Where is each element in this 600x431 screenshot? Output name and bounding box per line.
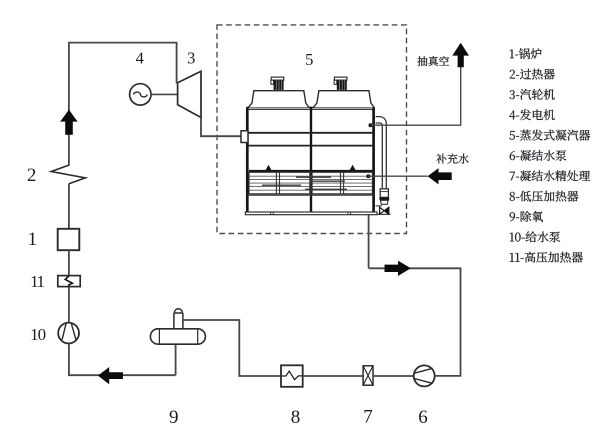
wire: heater 8 to polisher 7 — [303, 375, 363, 377]
condenser 5: internal horizontal lines — [247, 132, 374, 134]
wire: condenser basin drain — [368, 215, 370, 269]
condenser 5: makeup water inlet mark — [367, 175, 371, 179]
wire: pump 10 down and bottom-left run to deaerator drain — [69, 343, 176, 375]
condenser 5: fan motor left — [271, 80, 274, 84]
legend line 7-凝结水精处理 — [510, 170, 590, 181]
bold up arrow on main steam line — [60, 110, 77, 135]
bold left arrow on feedwater line — [98, 367, 123, 384]
wire: pump 6 right riser up to condenser drain line — [369, 268, 461, 376]
condensate polisher 7 (box with X) — [363, 366, 373, 385]
legend line 3-汽轮机 — [510, 89, 555, 100]
wire: generator to turbine shaft — [151, 93, 177, 95]
wire: polisher 7 to condensate pump 6 — [373, 375, 414, 377]
svg-text:8: 8 — [291, 407, 301, 428]
svg-text:10: 10 — [30, 325, 46, 344]
condenser 5: spray riser pipe with elbow — [376, 117, 387, 189]
legend line 8-低压加热器 — [510, 191, 579, 202]
vacuum extraction line with junction dot — [369, 123, 373, 127]
condenser 5: body top — [247, 107, 374, 109]
condenser 5: center divider — [310, 107, 312, 212]
condenser 5: fan housing left — [248, 91, 309, 108]
label 补充水 (makeup water) — [436, 154, 468, 164]
condenser 5: coil/fill section — [249, 172, 372, 194]
condenser 5: left wall — [246, 107, 249, 212]
dashed boundary box around evaporative condenser 5 — [217, 25, 407, 234]
svg-text:2: 2 — [27, 165, 37, 186]
condenser 5: right wall — [372, 107, 375, 212]
legend line 5-蒸发式凝汽器 — [510, 130, 591, 141]
feed pump 10 (circle with impeller chords) — [58, 323, 79, 344]
deaerator 9: drain wire — [175, 344, 177, 375]
wire: boiler 1 to heater 11 — [68, 250, 70, 276]
legend line 11-高压加热器 — [510, 252, 583, 263]
wire: turbine exhaust to condenser inlet — [201, 117, 241, 136]
wire: superheater outlet to turbine (top-left loop) — [69, 43, 177, 166]
deaerator 9: horizontal tank capsule — [150, 329, 205, 344]
condenser 5: fan housing right — [314, 91, 375, 108]
LP heater 8 (box with wave) — [281, 365, 303, 387]
component number labels — [27, 49, 428, 428]
condenser 5: turbine exhaust connector box — [241, 131, 248, 143]
svg-text:5: 5 — [305, 50, 313, 69]
condenser 5: basin bottom section — [247, 194, 374, 196]
svg-text:3: 3 — [187, 49, 195, 68]
turbine 3 (trapezoid) — [178, 71, 201, 117]
superheater 2 zigzag symbol — [51, 165, 85, 184]
legend line 1-锅炉 — [510, 48, 542, 59]
svg-text:11: 11 — [30, 272, 44, 291]
makeup water line — [368, 175, 428, 177]
condenser 5: spray water pump — [380, 189, 388, 198]
HP heater 11 (box with zigzag) — [58, 276, 80, 287]
svg-text:1: 1 — [28, 229, 38, 250]
condenser 5: fill band top — [249, 170, 372, 172]
condenser 5: spray nozzle triangles — [266, 165, 272, 171]
wire: condensate into deaerator column — [183, 320, 281, 376]
deaerator 9: vertical dome column — [174, 309, 183, 329]
wire: heater 11 to feed pump 10 — [68, 287, 70, 323]
svg-text:7: 7 — [363, 407, 373, 428]
legend line 2-过热器 — [510, 69, 555, 80]
legend line 4-发电机 — [509, 109, 554, 120]
svg-text:4: 4 — [136, 49, 144, 68]
svg-text:6: 6 — [418, 407, 428, 428]
legend line 10-给水泵 — [510, 231, 560, 242]
boiler 1 (box) — [58, 229, 80, 250]
legend line 6-凝结水泵 — [510, 150, 567, 161]
generator 4 (circle with sine) — [130, 84, 151, 105]
bold up arrow (vacuum) — [452, 43, 469, 68]
condensate pump 6 (circle with cone chords) — [414, 365, 435, 386]
wire: zigzag 2 down to boiler 1 — [68, 184, 70, 229]
condenser 5: fan motor right — [334, 80, 337, 84]
condenser 5: base plate — [245, 212, 377, 215]
label 抽真空 (vacuum extraction) — [417, 56, 449, 66]
bold left arrow (makeup water) — [428, 168, 452, 184]
bold right arrow on condensate line — [385, 261, 411, 276]
legend line 9-除氧 — [510, 211, 543, 222]
svg-text:9: 9 — [169, 407, 179, 428]
condenser 5: body top inner line — [249, 109, 373, 111]
